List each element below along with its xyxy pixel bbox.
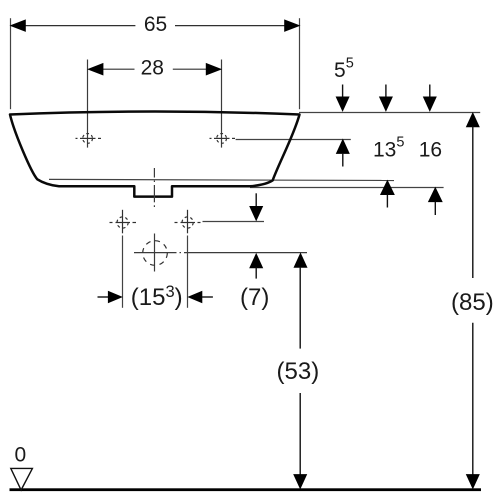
dimension 85 line with arrows <box>466 113 479 489</box>
fixing hole level line extended right (7 reference) <box>203 221 265 223</box>
dimension 65 right extension line <box>299 18 301 109</box>
floor line <box>10 488 482 491</box>
siphon horizontal centerline extended right (53 / 7 reference) <box>134 252 307 254</box>
siphon vertical centerline <box>154 234 156 272</box>
lowest basin line extended right (16 reference) <box>250 187 444 189</box>
svg-text:(53): (53) <box>277 358 320 385</box>
dimension 15.3 left extension line <box>122 236 124 308</box>
datum triangle floor level <box>11 468 33 490</box>
dimension 13.5 up arrow <box>381 181 395 208</box>
dimension 65 line <box>12 25 298 27</box>
svg-text:16: 16 <box>419 138 442 161</box>
dimension 65 right arrowhead <box>285 20 300 31</box>
dimension 5.5 up arrow <box>336 140 349 167</box>
drain centerline (vertical dash-dot) <box>153 168 155 207</box>
dimension 16 down arrow <box>423 85 436 111</box>
dimension 13.5 down arrow <box>380 85 393 111</box>
dimension 65 left arrowhead <box>11 20 26 31</box>
dimension 15.3 right arrow <box>188 291 213 302</box>
thin front lower edge line extended right (13.5 reference) <box>49 179 394 180</box>
right tap hole cross <box>210 134 236 144</box>
dimension 7 up arrow <box>250 254 263 279</box>
dimension 7 down arrow <box>250 193 263 220</box>
dimension 53 line with arrows <box>294 253 307 488</box>
rim top reference line <box>299 112 480 114</box>
dimension 28 line <box>89 68 220 70</box>
dimension 28 left arrowhead <box>88 64 103 75</box>
dimension 28 left extension line (tap hole centerline) <box>87 60 89 148</box>
dimension 5.5 down arrow <box>336 85 349 111</box>
dimension 16 up arrow <box>429 188 443 215</box>
left fixing hole cross <box>110 210 137 234</box>
tap hole level reference line <box>236 139 351 141</box>
dimension 28 right arrowhead <box>206 64 221 75</box>
svg-text:65: 65 <box>144 13 167 36</box>
svg-text:(153): (153) <box>131 283 183 311</box>
svg-text:0: 0 <box>14 443 26 466</box>
dimension 65 left extension line <box>10 18 12 109</box>
svg-text:(85): (85) <box>451 289 494 316</box>
right fixing hole cross <box>175 210 201 234</box>
svg-text:28: 28 <box>141 57 164 80</box>
left tap hole cross <box>76 134 102 144</box>
dimension 28 right extension line (tap hole centerline) <box>221 60 223 148</box>
washbasin outline <box>10 112 300 197</box>
siphon dashed circle <box>143 241 168 266</box>
dimension 15.3 right extension line <box>187 236 189 308</box>
svg-text:(7): (7) <box>240 284 269 311</box>
dimension 15.3 left arrow <box>98 291 122 302</box>
